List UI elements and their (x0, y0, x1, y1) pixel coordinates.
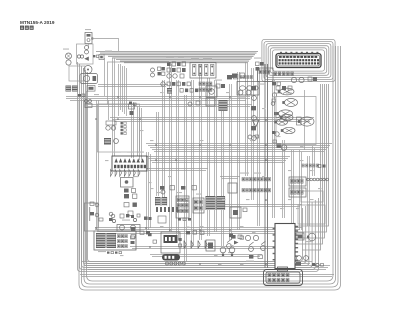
front turn signal lamp box (117, 225, 140, 232)
bottom diodes (184, 241, 207, 249)
rear small comps (297, 256, 302, 261)
subtitle wiring-diagram CJK label (20, 26, 34, 30)
diode D3 triangle (253, 120, 260, 127)
diode pair comps (227, 75, 232, 79)
meter fan-out diodes (111, 170, 141, 177)
handlebar switch right box (237, 82, 259, 96)
bottom mid comps (229, 234, 233, 238)
rear section box upper (301, 191, 323, 202)
stator coil circles (66, 53, 72, 59)
junction comps small (129, 102, 132, 105)
left harness comp chain (251, 86, 256, 90)
clutch switch comps (216, 84, 220, 88)
flasher relay small (129, 104, 135, 109)
marks below center blocks (178, 218, 181, 221)
AC magneto assembly box (77, 44, 94, 64)
connector 4B (93, 55, 95, 57)
brake switches (227, 244, 232, 249)
pin stack connector (121, 122, 123, 124)
ECU main unit box (275, 224, 295, 269)
relay box mid-bottom (161, 232, 180, 253)
rear label box comps (90, 202, 94, 205)
marks above bottom connector (312, 263, 315, 266)
inner harness comp column (272, 82, 276, 85)
small comps below diode (248, 135, 252, 139)
ground joint connector hatched (219, 100, 228, 111)
comps row above left switch box (111, 214, 115, 218)
speed sensor box (121, 178, 134, 188)
pickup coil circle (84, 66, 92, 74)
engine sub connector box (258, 68, 274, 82)
starter motor (162, 254, 180, 261)
sensor chain comps (124, 189, 129, 193)
relay box small (206, 98, 215, 106)
marks below left switch box (98, 251, 106, 252)
rear marks row upper (302, 164, 319, 167)
ground terminal comps (78, 94, 81, 97)
ECU connector nested loop wires (262, 39, 335, 81)
fuse box (190, 63, 216, 79)
left small comps pair (151, 68, 155, 72)
junction dots (95, 96, 267, 265)
indicator lamp bulb (274, 119, 287, 125)
main switch rows right (199, 82, 212, 85)
main harness bottom connector (278, 267, 288, 271)
right harness vertical bus wires (278, 84, 329, 250)
main harness bold wire (265, 64, 268, 268)
kill switch comps (256, 62, 260, 66)
ISC comps row (276, 86, 280, 90)
O2 sensor comps (245, 235, 250, 240)
horn (308, 233, 316, 241)
battery and starter cluster (167, 62, 171, 66)
rectifier diode arrow (84, 57, 89, 61)
left meter comps (109, 212, 113, 216)
handlebar switch left box (94, 231, 136, 250)
inner harness loop wires left-bottom (78, 62, 319, 272)
headlight bulb low beam (282, 99, 297, 107)
joint connector rows right (242, 178, 271, 181)
rear frame label box (85, 203, 99, 231)
terminal circle row (307, 178, 329, 181)
starter relay K1 (206, 86, 217, 97)
meter cluster container box (98, 104, 140, 152)
small comps row center-bottom (186, 231, 190, 234)
label smudges (95, 92, 322, 265)
fuel pump connector (296, 233, 304, 240)
relay small rows (167, 82, 170, 86)
wire lead comp (99, 55, 104, 60)
meter assembly connector (112, 156, 147, 171)
rear brake switch (281, 145, 287, 151)
top harness bus wires (96, 52, 258, 63)
clutch comps small (148, 233, 152, 236)
headlight assembly box (276, 97, 316, 145)
main fuse F1 (85, 33, 92, 44)
spark plug cap (87, 86, 95, 92)
rear turn signal bulbs (220, 247, 226, 253)
vertical harness wires (97, 58, 315, 262)
terminal circle row bottom (166, 262, 186, 265)
center tick row (156, 207, 178, 212)
magneto lower box (69, 66, 85, 81)
rear section box lower (298, 205, 325, 224)
throttle position sensor comps (232, 74, 237, 78)
tail brake lamp bulb (298, 117, 314, 126)
pressure sensor box (230, 207, 241, 218)
magneto connectors hatched (66, 86, 72, 92)
injector (206, 240, 215, 251)
side stand switch comps (131, 227, 135, 231)
ECU multi-pin connector (276, 54, 321, 68)
magneto small comps (85, 46, 89, 50)
middle horizontal bus wires (66, 85, 334, 277)
sensor sub-harness row below ECU (274, 72, 293, 76)
rear sub-harness connector lower (289, 188, 306, 197)
position lamp bulb (276, 110, 292, 117)
section container outline (108, 62, 170, 104)
ignition coil (80, 74, 98, 84)
svg-text:MTN155-A 2019: MTN155-A 2019 (20, 20, 55, 25)
relay area comps (188, 102, 192, 106)
neutral switch comps (140, 231, 144, 234)
center circle comp (161, 190, 165, 194)
headlight bulb high beam (278, 88, 294, 95)
meter lamp bulb (280, 114, 293, 120)
center comps row (160, 186, 164, 190)
rear sub-harness connector upper (289, 177, 306, 186)
clock spring comps (106, 126, 110, 130)
auxiliary lamp bulb (281, 127, 295, 133)
joint connector columns (155, 197, 161, 206)
outer harness loop wires (79, 46, 341, 290)
